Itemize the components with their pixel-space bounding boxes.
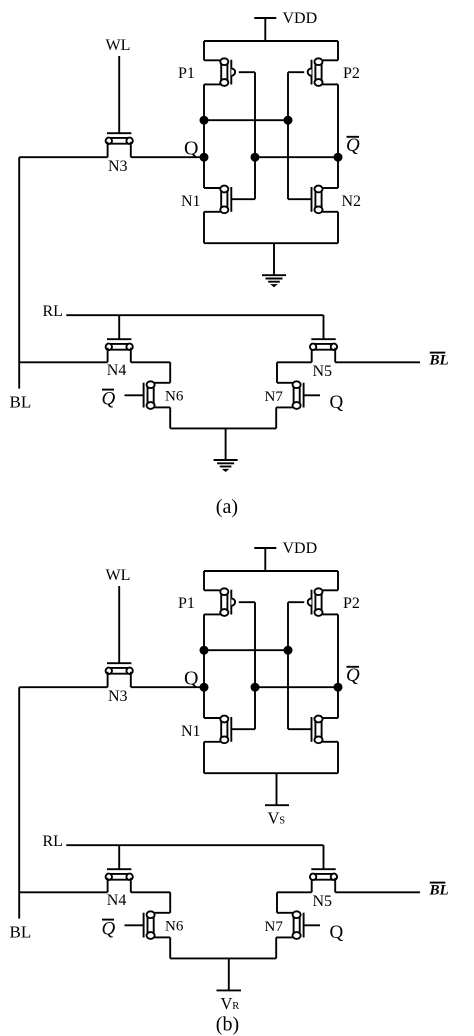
wire BL vertical (b): [18, 687, 20, 918]
wire P1 source jog (b): [204, 589, 220, 591]
svg-text:Q: Q: [102, 389, 116, 410]
wire N7 gate (b): [304, 924, 320, 926]
wire P2 gate (b): [288, 601, 304, 603]
transistor N1 (b): [220, 716, 231, 744]
net BLbar label (a): [429, 353, 449, 369]
wire BL vertical (a): [18, 157, 20, 388]
wire inverter source rail (b): [204, 772, 338, 774]
wire P1 gate (b): [239, 601, 255, 603]
ground read (a): [214, 460, 238, 472]
svg-text:N2: N2: [342, 193, 362, 210]
wire ground stem (a): [273, 243, 275, 275]
wire node Q to P2 gate (b): [204, 649, 288, 651]
wire N7 source jog (b): [276, 936, 292, 938]
wire N3 to BL (a): [19, 156, 107, 158]
transistor N4 (a): [106, 339, 133, 350]
transistor N6 (a): [144, 381, 155, 409]
svg-text:N6: N6: [165, 919, 184, 935]
svg-text:P2: P2: [343, 65, 360, 82]
svg-text:Q: Q: [346, 665, 360, 686]
wire N2 drain jog (a): [323, 187, 339, 189]
wire N4 gate stem (a): [118, 315, 120, 339]
wire N5 right drop (b): [334, 878, 336, 893]
wire N2 drain jog (b): [323, 717, 339, 719]
wire P1 drain jog (a): [204, 83, 220, 85]
node Qbar label (a): [346, 135, 360, 156]
wire WL stem (b): [118, 586, 120, 663]
junction P1 gate (a): [251, 153, 260, 162]
svg-text:N1: N1: [181, 193, 201, 210]
wire N3 right drop (b): [130, 672, 132, 687]
wire N7 drain jog (b): [277, 912, 293, 914]
svg-text:(a): (a): [216, 496, 238, 518]
svg-text:N5: N5: [313, 893, 333, 910]
transistor P1 (b): [220, 588, 235, 616]
wire N6 source vertical (b): [169, 937, 171, 958]
wire N4 to N6 (b): [131, 891, 170, 893]
wire N1 source jog (b): [204, 741, 220, 743]
wire N6 gate (a): [125, 394, 144, 396]
junction node Q (a): [200, 153, 209, 162]
wire N4 gate stem (b): [118, 845, 120, 869]
wire right rail upper (a): [337, 41, 339, 60]
junction Qbar (a): [334, 153, 343, 162]
wire N7 source vertical (b): [275, 937, 277, 958]
svg-text:P1: P1: [178, 595, 195, 612]
wire N7 drain vertical (a): [276, 362, 278, 383]
wire N3 left drop (b): [107, 672, 109, 687]
transistor P2 (b): [308, 588, 323, 616]
wire P2-N2 gate vertical (a): [287, 72, 289, 199]
wire WL stem (a): [118, 56, 120, 133]
svg-text:Q: Q: [184, 667, 199, 689]
wire node Qbar to P1 gate (b): [255, 686, 338, 688]
wire ground stem read (a): [225, 428, 227, 459]
wire N3 left drop (a): [107, 142, 109, 157]
terminal Vs bar (b): [265, 804, 289, 806]
wire P2 gate (a): [288, 71, 304, 73]
wire BL to N4 (b): [19, 891, 107, 893]
transistor P2 (a): [308, 58, 323, 86]
wire N1 source jog (a): [204, 211, 220, 213]
wire node Qbar to P1 gate (a): [255, 156, 338, 158]
wire left rail upper (a): [203, 41, 205, 60]
wire P1 source jog (a): [204, 59, 220, 61]
wire P2 source jog (a): [323, 59, 339, 61]
wire N1 drain jog (b): [204, 717, 220, 719]
svg-text:BL: BL: [429, 353, 449, 369]
wire N2 source jog (a): [323, 211, 339, 213]
junction P2 gate (b): [284, 646, 293, 655]
wire right rail upper (b): [337, 571, 339, 590]
wire N7 drain vertical (b): [276, 892, 278, 913]
wire RL line (a): [66, 314, 323, 316]
node Qbar gate label (b): [102, 919, 116, 940]
wire left rail lower (b): [203, 742, 205, 773]
svg-text:WL: WL: [106, 567, 131, 584]
wire VDD top rail (a): [204, 40, 338, 42]
wire left rail lower (a): [203, 212, 205, 243]
wire N6 source vertical (a): [169, 407, 171, 428]
wire node Q to P2 gate (a): [204, 119, 288, 121]
wire left rail upper (b): [203, 571, 205, 590]
junction P1 gate (b): [251, 683, 260, 692]
wire Vs stem (b): [276, 773, 278, 805]
transistor N6 (b): [144, 911, 155, 939]
wire N7 gate (a): [304, 394, 320, 396]
wire N5 gate stem (a): [323, 315, 325, 339]
wire P2-N2 gate vertical (b): [287, 602, 289, 729]
wire N1 gate (b): [231, 728, 255, 730]
transistor N3 (a): [106, 133, 133, 144]
transistor N7 (a): [293, 381, 304, 409]
power VDD terminal (a): [254, 18, 276, 41]
wire N7 drain jog (a): [277, 382, 293, 384]
svg-text:N7: N7: [265, 919, 284, 935]
wire N6 gate (b): [125, 924, 144, 926]
wire P2 drain jog (b): [323, 613, 339, 615]
transistor N5 (a): [310, 339, 337, 350]
wire RL line (b): [66, 844, 323, 846]
svg-text:Q: Q: [102, 919, 116, 940]
svg-text:Q: Q: [184, 137, 199, 159]
wire N6 drain vertical (b): [169, 892, 171, 913]
wire P2 source jog (b): [323, 589, 339, 591]
node Qbar label (b): [346, 665, 360, 686]
wire P1-N1 gate vertical (b): [254, 602, 256, 729]
svg-text:V: V: [268, 808, 280, 827]
transistor N2 (b): [312, 716, 323, 744]
wire N1 gate (a): [231, 198, 255, 200]
wire P1 gate (a): [239, 71, 255, 73]
junction Q cross (a): [200, 116, 209, 125]
svg-text:V: V: [221, 994, 233, 1013]
wire N6 drain jog (a): [155, 382, 171, 384]
wire N4 left drop (a): [107, 348, 109, 363]
svg-text:N3: N3: [108, 158, 128, 175]
wire N5 left drop (b): [311, 878, 313, 893]
transistor N4 (b): [106, 869, 133, 880]
svg-text:Q: Q: [330, 922, 344, 943]
svg-text:BL: BL: [10, 923, 32, 942]
terminal Vr bar (b): [217, 989, 242, 991]
svg-text:N6: N6: [165, 389, 184, 405]
wire BL to N4 (a): [19, 361, 107, 363]
junction P2 gate (a): [284, 116, 293, 125]
svg-text:VDD: VDD: [283, 10, 318, 27]
svg-text:R: R: [232, 1001, 239, 1012]
wire N2 gate (a): [288, 198, 312, 200]
wire P1 drain jog (b): [204, 613, 220, 615]
svg-text:WL: WL: [106, 37, 131, 54]
wire N3 to Q (a): [131, 156, 204, 158]
wire read source rail (a): [170, 427, 276, 429]
wire right rail lower (a): [337, 212, 339, 243]
wire N5 right drop (a): [334, 348, 336, 363]
wire N7 to N5 (a): [277, 361, 312, 363]
wire N5 to BLbar (a): [335, 361, 420, 363]
wire right rail lower (b): [337, 742, 339, 773]
wire N3 to Q (b): [131, 686, 204, 688]
ground cell (a): [262, 275, 286, 287]
wire N5 gate stem (b): [323, 845, 325, 869]
svg-text:Q: Q: [330, 392, 344, 413]
junction Qbar (b): [334, 683, 343, 692]
wire inverter source rail (a): [204, 242, 338, 244]
wire N1 drain jog (a): [204, 187, 220, 189]
wire N6 drain jog (b): [155, 912, 171, 914]
transistor N1 (a): [220, 186, 231, 214]
wire N6 drain vertical (a): [169, 362, 171, 383]
svg-text:N5: N5: [313, 363, 333, 380]
transistor N7 (b): [293, 911, 304, 939]
wire N4 right drop (a): [130, 348, 132, 363]
svg-text:Q: Q: [346, 135, 360, 156]
wire left rail mid (b): [203, 614, 205, 718]
wire right rail mid (b): [337, 614, 339, 718]
transistor N5 (b): [310, 869, 337, 880]
wire left rail mid (a): [203, 84, 205, 188]
label Vr (b): [221, 994, 240, 1013]
wire N4 right drop (b): [130, 878, 132, 893]
svg-text:N7: N7: [265, 389, 284, 405]
power VDD terminal (b): [254, 548, 276, 571]
svg-text:N4: N4: [107, 892, 127, 909]
transistor N3 (b): [106, 663, 133, 674]
wire N3 to BL (b): [19, 686, 107, 688]
wire N4 left drop (b): [107, 878, 109, 893]
wire N2 source jog (b): [323, 741, 339, 743]
wire N6 source jog (b): [155, 936, 171, 938]
svg-text:BL: BL: [429, 883, 449, 899]
wire N2 gate (b): [288, 728, 312, 730]
wire N7 source vertical (a): [275, 407, 277, 428]
wire N5 left drop (a): [311, 348, 313, 363]
junction Q cross (b): [200, 646, 209, 655]
wire read source rail (b): [170, 957, 276, 959]
wire P2 drain jog (a): [323, 83, 339, 85]
junction node Q (b): [200, 683, 209, 692]
svg-text:(b): (b): [216, 1014, 239, 1036]
wire N6 source jog (a): [155, 406, 171, 408]
node Qbar gate label (a): [102, 389, 116, 410]
svg-text:N4: N4: [107, 362, 127, 379]
wire N5 to BLbar (b): [335, 891, 420, 893]
svg-text:P2: P2: [343, 595, 360, 612]
svg-text:BL: BL: [10, 393, 32, 412]
svg-text:S: S: [279, 815, 285, 826]
wire N7 source jog (a): [276, 406, 292, 408]
svg-text:RL: RL: [43, 303, 63, 320]
label Vs (b): [268, 808, 286, 827]
wire P1-N1 gate vertical (a): [254, 72, 256, 199]
svg-text:N3: N3: [108, 688, 128, 705]
net BLbar label (b): [429, 883, 449, 899]
wire N3 right drop (a): [130, 142, 132, 157]
svg-text:N1: N1: [181, 723, 201, 740]
transistor P1 (a): [220, 58, 235, 86]
wire right rail mid (a): [337, 84, 339, 188]
wire N4 to N6 (a): [131, 361, 170, 363]
svg-text:RL: RL: [43, 833, 63, 850]
transistor N2 (a): [312, 186, 323, 214]
wire Vr stem (b): [228, 958, 230, 990]
svg-text:P1: P1: [178, 65, 195, 82]
wire N7 to N5 (b): [277, 891, 312, 893]
svg-text:VDD: VDD: [283, 540, 318, 557]
wire VDD top rail (b): [204, 570, 338, 572]
